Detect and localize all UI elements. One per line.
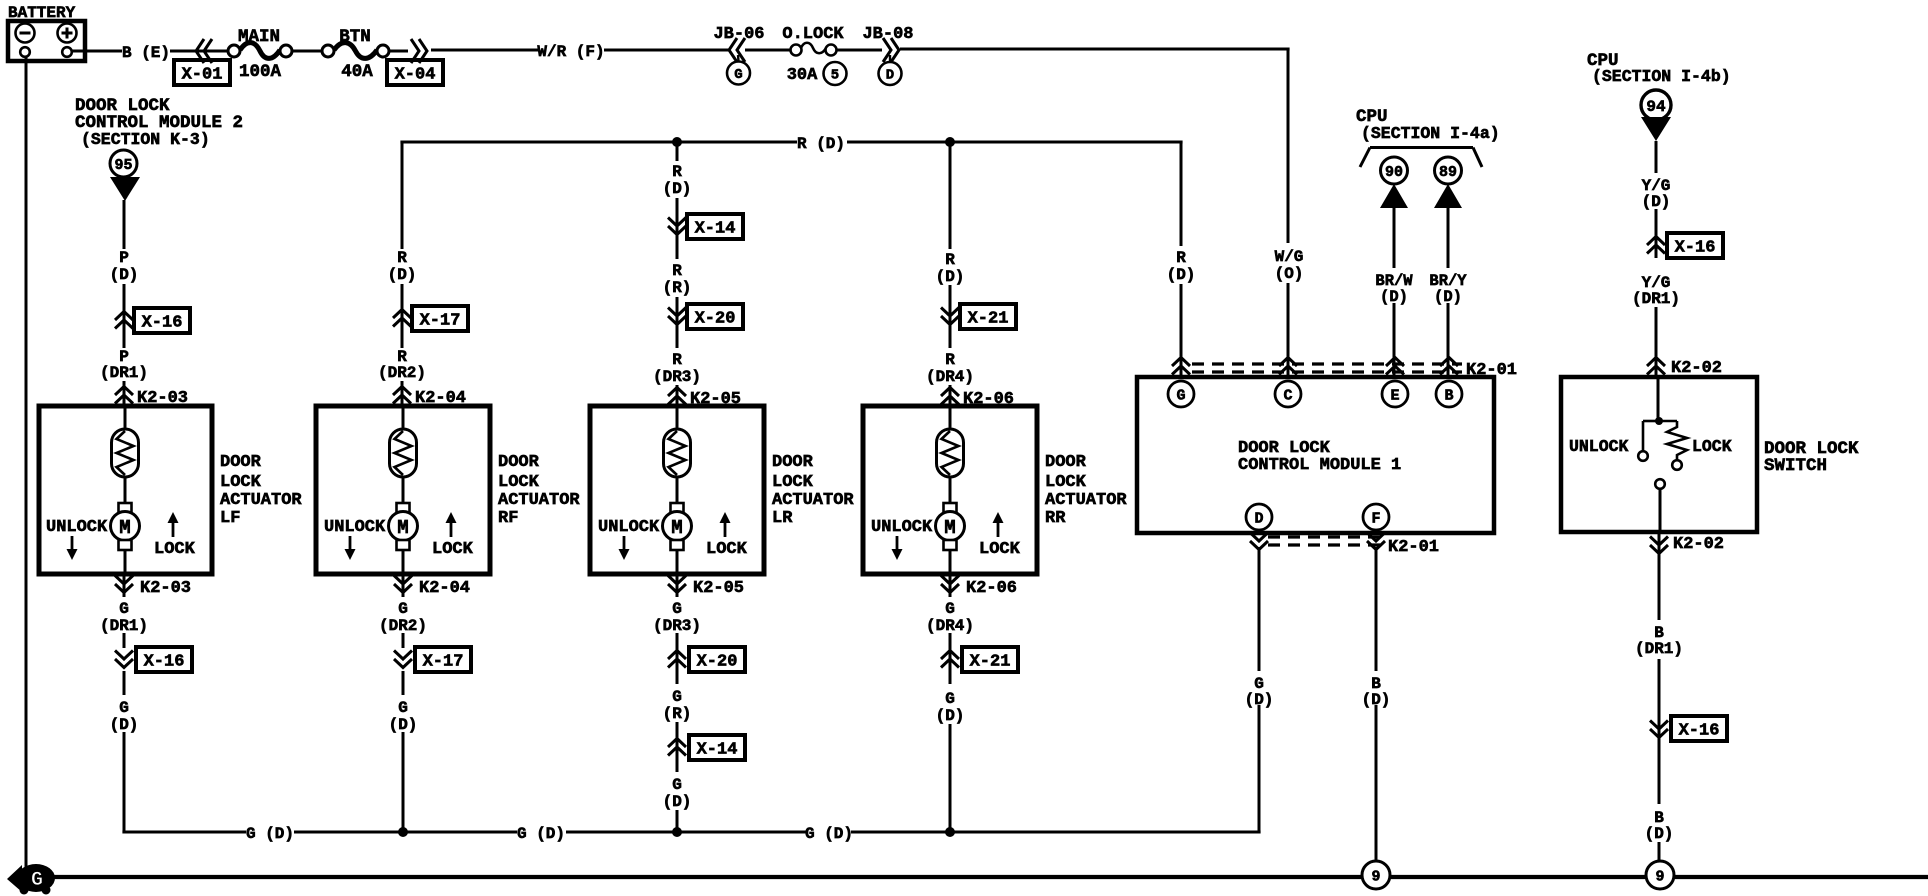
wire (676, 477, 679, 504)
wire inside actuator (676, 406, 679, 430)
svg-text:O.LOCK: O.LOCK (782, 25, 844, 44)
svg-text:MAIN: MAIN (238, 27, 280, 47)
svg-text:X-16: X-16 (144, 653, 185, 672)
svg-text:X-17: X-17 (423, 653, 464, 672)
svg-text:G: G (945, 600, 955, 618)
connector X-04 (387, 39, 443, 85)
CPU section I-4b header (1587, 51, 1731, 86)
svg-text:(DR4): (DR4) (926, 617, 974, 635)
wire G(DR2) (402, 574, 405, 648)
svg-text:G: G (398, 600, 408, 618)
connector K2-05 top (668, 388, 741, 410)
svg-text:X-16: X-16 (142, 314, 183, 333)
svg-text:G: G (119, 699, 129, 717)
svg-text:K2-04: K2-04 (419, 579, 470, 598)
wire (949, 724, 952, 832)
svg-text:94: 94 (1646, 98, 1666, 116)
label LOCK (706, 540, 748, 559)
connector X-16 switch top (1647, 233, 1723, 258)
wire (124, 477, 127, 504)
svg-text:R: R (672, 163, 682, 181)
connector K2-04 bottom (394, 576, 470, 599)
svg-text:G: G (1176, 387, 1185, 404)
svg-text:LOCK: LOCK (979, 540, 1021, 559)
label G (DR3) (653, 600, 701, 635)
svg-text:89: 89 (1439, 164, 1457, 181)
svg-text:G (D): G (D) (246, 825, 294, 843)
pin G (1168, 381, 1194, 407)
connector X-21 top (941, 304, 1016, 329)
wire (402, 551, 405, 574)
svg-text:LF: LF (220, 509, 240, 528)
label R (DR3) (653, 351, 701, 386)
arrow lock up (993, 512, 1004, 537)
label G (D) bus3 (805, 825, 853, 843)
label G (DR4) (926, 600, 974, 635)
label R (D) col3 (663, 163, 692, 198)
svg-text:UNLOCK: UNLOCK (46, 518, 108, 537)
connector K2-04 top (393, 387, 466, 409)
wire W/G (900, 49, 1290, 375)
svg-text:(D): (D) (1434, 288, 1462, 306)
label G (D) col4 (936, 690, 965, 725)
label R (R) (663, 262, 692, 297)
svg-text:(DR2): (DR2) (378, 364, 426, 382)
switch unlock contact (1638, 421, 1659, 461)
wire (949, 477, 952, 504)
svg-text:(R): (R) (663, 279, 692, 297)
connector K2-02 bottom (1650, 535, 1724, 554)
svg-text:X-04: X-04 (395, 66, 436, 85)
svg-text:ACTUATOR: ACTUATOR (1045, 491, 1127, 510)
svg-text:(D): (D) (110, 716, 139, 734)
label G (D) col3 (663, 776, 692, 811)
svg-text:RF: RF (498, 509, 518, 528)
svg-text:(DR4): (DR4) (926, 368, 974, 386)
svg-text:R: R (1176, 249, 1186, 267)
svg-text:(DR3): (DR3) (653, 368, 701, 386)
label LOCK (979, 540, 1021, 559)
motor M RF (389, 503, 418, 550)
wire G(DR4) (949, 574, 952, 684)
svg-text:LOCK: LOCK (154, 540, 196, 559)
label DOOR LOCK ACTUATOR LR (772, 453, 854, 528)
svg-text:(D): (D) (936, 707, 965, 725)
wire (676, 551, 679, 574)
door lock actuator LR box (590, 406, 764, 574)
svg-text:95: 95 (114, 157, 132, 174)
svg-text:G (D): G (D) (517, 825, 565, 843)
label DOOR LOCK ACTUATOR LF (220, 453, 302, 528)
svg-text:SWITCH: SWITCH (1764, 456, 1827, 476)
svg-text:G: G (31, 869, 43, 892)
svg-text:G: G (945, 690, 955, 708)
svg-text:K2-06: K2-06 (966, 579, 1017, 598)
svg-text:UNLOCK: UNLOCK (324, 518, 386, 537)
svg-text:R: R (672, 262, 682, 280)
svg-text:K2-01: K2-01 (1466, 361, 1517, 380)
label LOCK switch (1692, 437, 1732, 456)
door lock switch box (1561, 377, 1757, 532)
svg-text:W/G: W/G (1275, 248, 1304, 266)
node junction bus col3 (672, 827, 682, 837)
wire G(D) col2 (402, 671, 405, 832)
svg-text:LOCK: LOCK (220, 473, 262, 492)
svg-text:X-16: X-16 (1675, 239, 1716, 258)
coil RR (937, 429, 964, 477)
node 9 switch (1646, 861, 1674, 889)
svg-text:B: B (1444, 387, 1453, 404)
svg-text:5: 5 (831, 68, 839, 84)
svg-text:(D): (D) (936, 268, 965, 286)
svg-text:JB-06: JB-06 (713, 25, 764, 44)
svg-text:G: G (672, 600, 682, 618)
svg-text:X-20: X-20 (697, 653, 738, 672)
wire (837, 49, 882, 52)
motor M LF (111, 503, 140, 550)
connector K2-02 top (1647, 358, 1722, 379)
svg-text:(D): (D) (1167, 266, 1196, 284)
wire P(D) col1 (123, 200, 126, 406)
svg-text:(D): (D) (1380, 288, 1408, 306)
label BR/Y (D) (1429, 272, 1467, 306)
connector X-01 (174, 39, 230, 85)
label UNLOCK (598, 518, 660, 537)
label Y/G (DR1) (1632, 274, 1680, 308)
svg-text:(SECTION I-4a): (SECTION I-4a) (1361, 124, 1500, 143)
svg-text:G: G (398, 699, 408, 717)
svg-text:R: R (397, 249, 407, 267)
arrow lock up (720, 512, 731, 537)
arrow lock up (168, 512, 179, 537)
module 2 DOOR LOCK CONTROL MODULE 2 (SECTION K-3) (75, 96, 243, 149)
svg-text:CONTROL MODULE 1: CONTROL MODULE 1 (1238, 456, 1401, 475)
wire (745, 49, 790, 52)
wire G(D) from pin D (1258, 547, 1261, 832)
door lock actuator RF box (316, 406, 490, 574)
door lock actuator RR box (863, 406, 1037, 574)
wire B(D) (1658, 742, 1661, 804)
label LOCK (432, 540, 474, 559)
label R (D) pinG (1167, 249, 1196, 284)
arrow unlock down (619, 536, 630, 560)
wire BR/W (1393, 208, 1396, 375)
connector X-14 bottom (668, 735, 745, 760)
svg-text:R: R (945, 351, 955, 369)
svg-text:RR: RR (1045, 509, 1066, 528)
wire B(DR1) (1658, 532, 1661, 620)
switch output terminal (1655, 479, 1665, 532)
svg-text:D: D (1254, 510, 1263, 527)
connector K2-03 top (115, 387, 188, 409)
label B (D) (1645, 809, 1674, 843)
svg-text:(O): (O) (1275, 265, 1304, 283)
svg-text:(DR1): (DR1) (100, 617, 148, 635)
junction JB-06 (713, 25, 764, 85)
wire R(D) col2 (401, 142, 404, 406)
svg-text:X-21: X-21 (970, 653, 1011, 672)
svg-text:E: E (1390, 387, 1399, 404)
node 90 (1381, 157, 1408, 184)
wire battery negative to ground (25, 57, 28, 876)
wire inside actuator (124, 406, 127, 430)
svg-text:G: G (672, 688, 682, 706)
wire R(D) col3 (676, 142, 679, 406)
wire BR/Y (1447, 208, 1450, 375)
connector X-16 switch bottom (1650, 716, 1727, 741)
wire (291, 50, 323, 53)
label UNLOCK (324, 518, 386, 537)
connector K2-01 bottom (1250, 533, 1439, 558)
svg-text:90: 90 (1385, 164, 1403, 181)
CPU section I-4a header (1356, 107, 1500, 143)
svg-text:C: C (1283, 387, 1292, 404)
svg-text:K2-01: K2-01 (1388, 538, 1439, 557)
svg-text:P: P (119, 249, 129, 267)
svg-text:G: G (734, 67, 742, 83)
pin D (1246, 504, 1272, 530)
bracket CPU I-4a (1360, 148, 1482, 168)
svg-text:M: M (944, 517, 955, 539)
connector K2-06 top (941, 388, 1014, 410)
node junction bus col4 (945, 827, 955, 837)
connector X-20 top (668, 304, 743, 329)
svg-text:(D): (D) (1642, 193, 1671, 211)
label R (DR4) (926, 351, 974, 386)
label UNLOCK (871, 518, 933, 537)
node junction bus col2 (398, 827, 408, 837)
svg-text:X-16: X-16 (1679, 722, 1720, 741)
svg-text:LOCK: LOCK (432, 540, 474, 559)
svg-text:(SECTION K-3): (SECTION K-3) (81, 130, 210, 149)
label G (D) bus1 (246, 825, 294, 843)
svg-text:(D): (D) (1645, 825, 1674, 843)
wire R(D) col4 (949, 142, 952, 406)
label G (DR1) (100, 600, 148, 635)
arrow to CPU 89 (1434, 184, 1462, 208)
arrow from module 2 (110, 177, 140, 201)
wire G(DR3) (676, 574, 679, 684)
svg-text:40A: 40A (341, 62, 373, 82)
label B (DR1) (1635, 624, 1683, 658)
fuse MAIN 100A (228, 27, 292, 82)
wire B(D) from pin F (1375, 547, 1378, 861)
label UNLOCK (46, 518, 108, 537)
svg-text:ACTUATOR: ACTUATOR (772, 491, 854, 510)
label G (R) (663, 688, 692, 723)
svg-text:JB-08: JB-08 (862, 25, 913, 44)
fuse BTN 40A (322, 27, 389, 82)
svg-text:X-21: X-21 (968, 310, 1009, 329)
resistor lock contact (1659, 421, 1687, 470)
coil LF (112, 429, 139, 477)
svg-text:(D): (D) (389, 716, 418, 734)
svg-text:M: M (119, 517, 130, 539)
motor M RR (936, 503, 965, 550)
battery (8, 4, 85, 61)
svg-text:M: M (671, 517, 682, 539)
svg-text:30A: 30A (787, 66, 818, 85)
label R (D) col2 (388, 249, 417, 284)
arrow unlock down (67, 536, 78, 560)
wire (388, 50, 408, 53)
connector K2-03 bottom (115, 576, 191, 599)
label P (D) (110, 249, 139, 284)
junction JB-08 (862, 25, 913, 85)
svg-text:(DR2): (DR2) (379, 617, 427, 635)
label B (D) pinF (1362, 675, 1391, 709)
svg-text:UNLOCK: UNLOCK (1569, 437, 1629, 456)
node 94 (1641, 90, 1671, 120)
label G (D) bus2 (517, 825, 565, 843)
wire inside actuator (949, 406, 952, 430)
label LOCK (154, 540, 196, 559)
svg-text:(SECTION I-4b): (SECTION I-4b) (1592, 67, 1731, 86)
svg-text:(DR3): (DR3) (653, 617, 701, 635)
label BR/W (D) (1375, 272, 1413, 306)
svg-text:DOOR: DOOR (220, 453, 262, 472)
door lock actuator LF box (39, 406, 212, 574)
wire (402, 477, 405, 504)
svg-text:(D): (D) (1362, 691, 1391, 709)
svg-text:UNLOCK: UNLOCK (871, 518, 933, 537)
wire switch common top (1657, 377, 1660, 421)
svg-text:LOCK: LOCK (706, 540, 748, 559)
arrow unlock down (345, 536, 356, 560)
coil LR (664, 429, 691, 477)
label R (DR2) (378, 348, 426, 382)
svg-text:K2-02: K2-02 (1673, 535, 1724, 554)
label G (D) col2 (389, 699, 418, 734)
connector X-16 col1 bottom (115, 647, 192, 672)
label Y/G (D) (1642, 177, 1671, 211)
label G (DR2) (379, 600, 427, 635)
svg-text:LOCK: LOCK (772, 473, 814, 492)
label R (D) col4 (936, 251, 965, 286)
wire (1658, 842, 1661, 861)
wire G(D) col1 (123, 671, 126, 832)
svg-text:ACTUATOR: ACTUATOR (498, 491, 580, 510)
arrow unlock down (892, 536, 903, 560)
motor M LR (663, 503, 692, 550)
connector X-17 bottom (394, 647, 471, 672)
label DOOR LOCK SWITCH (1764, 439, 1859, 476)
svg-text:DOOR: DOOR (1045, 453, 1087, 472)
wire (1658, 659, 1661, 742)
wire W/R(F) (431, 49, 730, 52)
svg-text:LOCK: LOCK (1692, 437, 1732, 456)
svg-text:K2-05: K2-05 (693, 579, 744, 598)
svg-text:K2-03: K2-03 (140, 579, 191, 598)
ground G (7, 864, 55, 895)
svg-text:(D): (D) (663, 793, 692, 811)
label G (D) pinD (1245, 675, 1274, 709)
connector X-20 bottom (668, 647, 745, 672)
pin E (1382, 381, 1408, 407)
svg-text:9: 9 (1371, 868, 1380, 885)
svg-text:(D): (D) (663, 180, 692, 198)
pin F (1363, 504, 1389, 530)
svg-text:X-17: X-17 (420, 312, 461, 331)
label B (E) (122, 44, 170, 62)
wire B(E) (71, 50, 228, 53)
wire Y/G (1655, 141, 1658, 375)
fuse O.LOCK 30A (782, 25, 846, 85)
connector K2-06 bottom (941, 576, 1017, 599)
node switch common (1655, 417, 1663, 425)
svg-text:(R): (R) (663, 705, 692, 723)
connector K2-01 top (1172, 358, 1517, 381)
connector X-16 col1 top (115, 308, 190, 333)
svg-text:G (D): G (D) (805, 825, 853, 843)
svg-text:G: G (119, 600, 129, 618)
svg-text:B (E): B (E) (122, 44, 170, 62)
connector K2-05 bottom (668, 576, 744, 599)
svg-text:9: 9 (1655, 868, 1664, 885)
pin B (1436, 381, 1462, 407)
label W/R (F) (537, 43, 604, 61)
wire R(D) bus (400, 141, 1182, 144)
module 1 box (1137, 377, 1494, 533)
arrow to CPU 90 (1380, 184, 1408, 208)
connector X-17 top (393, 306, 468, 331)
wire inside actuator (402, 406, 405, 430)
wire (676, 810, 679, 832)
svg-text:(D): (D) (388, 266, 417, 284)
svg-text:ACTUATOR: ACTUATOR (220, 491, 302, 510)
label R (D) (797, 135, 845, 153)
svg-text:F: F (1371, 510, 1380, 527)
svg-text:R (D): R (D) (797, 135, 845, 153)
arrow lock up (446, 512, 457, 537)
svg-text:UNLOCK: UNLOCK (598, 518, 660, 537)
label G (D) col1 (110, 699, 139, 734)
pin C (1275, 381, 1301, 407)
svg-text:(D): (D) (1245, 691, 1274, 709)
svg-text:(DR1): (DR1) (1635, 640, 1683, 658)
node 89 (1435, 157, 1462, 184)
connector X-14 top (668, 214, 743, 239)
label DOOR LOCK ACTUATOR RR (1045, 453, 1127, 528)
svg-text:(DR1): (DR1) (100, 364, 148, 382)
svg-text:(DR1): (DR1) (1632, 290, 1680, 308)
svg-text:DOOR: DOOR (498, 453, 540, 472)
svg-text:LOCK: LOCK (498, 473, 540, 492)
svg-text:LR: LR (772, 509, 793, 528)
node 9 pinF (1362, 861, 1390, 889)
wire G(DR1) (123, 574, 126, 648)
svg-text:D: D (886, 68, 894, 84)
svg-text:W/R (F): W/R (F) (537, 43, 604, 61)
svg-text:G: G (672, 776, 682, 794)
label P (DR1) (100, 348, 148, 382)
svg-text:100A: 100A (239, 62, 282, 82)
node 95 (110, 150, 137, 177)
svg-text:R: R (672, 351, 682, 369)
ground bus (52, 875, 1928, 879)
svg-text:LOCK: LOCK (1045, 473, 1087, 492)
arrow from CPU 94 (1641, 117, 1671, 141)
wire (949, 551, 952, 574)
svg-text:BTN: BTN (339, 27, 371, 47)
svg-text:X-14: X-14 (697, 741, 738, 760)
coil RF (390, 429, 417, 477)
svg-text:X-01: X-01 (182, 66, 223, 85)
svg-text:DOOR: DOOR (772, 453, 814, 472)
svg-text:M: M (397, 517, 408, 539)
svg-text:X-14: X-14 (695, 220, 736, 239)
node junction col3 (672, 137, 682, 147)
